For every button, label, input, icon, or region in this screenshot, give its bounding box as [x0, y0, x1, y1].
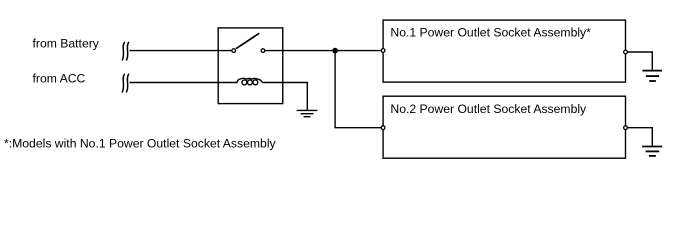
wire No.2 box to ground [627, 128, 652, 146]
No.2 Power Outlet Socket Assembly box [383, 96, 625, 158]
svg-text:*:Models with No.1 Power Outle: *:Models with No.1 Power Outlet Socket A… [4, 137, 277, 151]
relay switch contact (left pin) [232, 49, 236, 53]
ground (No.1 box) [642, 71, 662, 81]
wire-break squiggle (Battery feed) [122, 42, 128, 60]
No.2 box feed pin [381, 126, 385, 130]
relay switch contact (right pin) [261, 49, 265, 53]
relay coil L [237, 78, 263, 85]
No.1 box feed pin [381, 49, 385, 53]
svg-text:No.1 Power Outlet Socket Assem: No.1 Power Outlet Socket Assembly* [390, 25, 591, 39]
svg-text:from Battery: from Battery [33, 37, 100, 51]
relay switch lever [236, 33, 259, 49]
wire from ACC to relay coil [130, 82, 238, 84]
wire relay switch output [265, 50, 381, 52]
No.1 box ground pin [624, 50, 628, 54]
No.1 Power Outlet Socket Assembly box [383, 20, 625, 82]
No.2 box ground pin [624, 126, 628, 130]
wire relay coil to ground [262, 83, 307, 110]
ground (relay coil) [297, 110, 318, 116]
wire No.1 box to ground [627, 52, 652, 70]
junction node [332, 48, 338, 54]
ground (No.2 box) [642, 147, 662, 156]
svg-text:from ACC: from ACC [33, 72, 86, 86]
relay box [218, 28, 283, 104]
svg-text:No.2 Power Outlet Socket Assem: No.2 Power Outlet Socket Assembly [390, 102, 587, 116]
wire-break squiggle (ACC feed) [122, 74, 128, 92]
wire junction drop to No.2 feed [335, 51, 381, 128]
wire from Battery to relay switch [130, 50, 232, 52]
